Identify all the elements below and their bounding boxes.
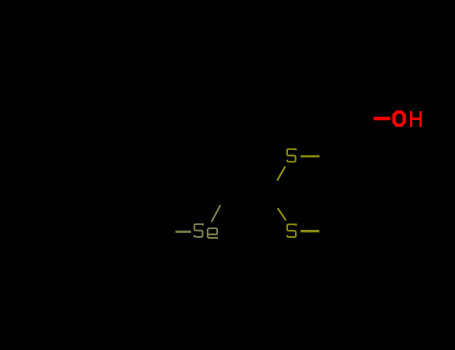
wire: bond C-S2 (S half, diagonal) bbox=[278, 208, 286, 220]
node O: atom label "O" (bold red octagon) bbox=[394, 112, 404, 125]
node S2: atom label "S" (lower sulfur) bbox=[287, 224, 296, 237]
wire: bond CH3-Se (Se half, horizontal) bbox=[176, 231, 192, 233]
node S1: atom label "S" (upper sulfur) bbox=[287, 149, 296, 162]
wire: bond CH2-OH (O half, horizontal, red) bbox=[374, 117, 391, 120]
wire: bond Se-C (Se half, diagonal) bbox=[211, 205, 220, 222]
node H: atom label "H" (red) bbox=[411, 111, 420, 127]
wire: bond C-S1 (S half, diagonal) bbox=[277, 167, 285, 181]
wire: bond S2-CH3 (S half, horizontal) bbox=[301, 230, 320, 233]
wire: bond S1-CH2 (S half, horizontal) bbox=[301, 155, 320, 157]
node Se: atom label "Se" bbox=[194, 224, 218, 238]
